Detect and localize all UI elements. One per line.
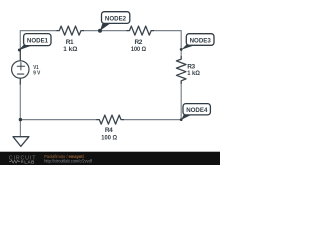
resistor R1 <box>57 26 84 35</box>
label V1 value <box>33 65 40 77</box>
node flag NODE3 <box>181 34 214 50</box>
svg-text:LAB: LAB <box>24 160 35 165</box>
svg-text:NODE2: NODE2 <box>105 16 126 23</box>
node flag NODE2 <box>100 12 130 31</box>
wire R3 to bottom-right corner <box>124 83 182 119</box>
wire top-left riser and top segment <box>20 31 57 50</box>
node flag NODE4 <box>181 104 210 120</box>
V1 top lead <box>19 50 21 61</box>
svg-text:9 V: 9 V <box>33 71 40 77</box>
label R4 value <box>101 127 117 142</box>
wire R4 to bottom-left junction <box>20 119 96 121</box>
ground triangle <box>13 137 29 147</box>
svg-text:R4: R4 <box>105 127 113 134</box>
label R3 value <box>187 64 200 77</box>
svg-text:1 kΩ: 1 kΩ <box>63 46 77 53</box>
junction dot NODE1 anchor <box>18 49 21 52</box>
junction dot NODE3 anchor <box>180 48 183 51</box>
junction dot NODE2 anchor <box>98 29 102 33</box>
ground stub wire <box>19 120 21 137</box>
resistor R3 <box>176 57 186 84</box>
svg-text:1 kΩ: 1 kΩ <box>187 70 200 77</box>
svg-text:NODE4: NODE4 <box>186 107 207 114</box>
svg-text:100 Ω: 100 Ω <box>131 46 146 53</box>
watermark bar <box>0 152 220 165</box>
node flag NODE1 <box>18 34 51 51</box>
svg-text:NODE3: NODE3 <box>190 38 211 45</box>
V1 minus sign <box>17 73 23 75</box>
voltage source V1 circle <box>12 61 29 78</box>
resistor R2 <box>127 26 154 35</box>
V1 plus sign <box>17 63 24 70</box>
svg-text:NODE1: NODE1 <box>27 38 48 45</box>
svg-text:R2: R2 <box>134 39 142 46</box>
wire V1 bottom to junction <box>19 84 21 120</box>
svg-text:R1: R1 <box>66 39 74 46</box>
V1 bottom lead <box>19 78 21 84</box>
junction dot NODE4 anchor <box>180 118 183 121</box>
svg-text:http://circuitlab.com/c/2vvdf: http://circuitlab.com/c/2vvdf <box>44 158 93 163</box>
label R2 value <box>131 39 146 53</box>
label R1 value <box>63 39 77 53</box>
junction dot bottom-left <box>19 118 22 121</box>
svg-text:100 Ω: 100 Ω <box>101 135 117 142</box>
resistor R4 <box>97 115 124 124</box>
wire R1 to R2 <box>84 30 128 32</box>
wire R2 to top-right corner <box>154 31 182 57</box>
